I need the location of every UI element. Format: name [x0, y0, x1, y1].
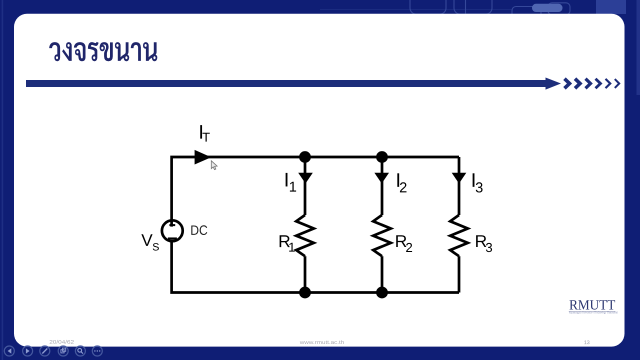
footer date [50, 340, 74, 344]
button: copy [58, 346, 68, 356]
label I3 [473, 173, 475, 187]
label I1 [286, 173, 288, 187]
right edge light strip [637, 0, 640, 95]
chevrons [565, 79, 620, 89]
left edge light line [1, 0, 3, 360]
button: previous [4, 346, 14, 356]
junction node bottom of R1 [299, 287, 311, 299]
wire: R1 branch bottom [304, 256, 307, 292]
wire: R2 branch top [381, 157, 384, 215]
junction node bottom of R2 [376, 287, 388, 299]
mouse cursor [211, 161, 217, 170]
junction node top of R2 [376, 151, 388, 163]
wire: bottom bus [172, 241, 459, 292]
label VS [141, 234, 152, 246]
top band deco filled chip [532, 4, 563, 12]
footer url [300, 340, 344, 344]
button: more [92, 346, 102, 356]
top-right lighter block [596, 0, 626, 14]
slide title (Thai): วงจรขนาน [49, 42, 157, 61]
current I3 arrow [452, 173, 467, 184]
footer page number [584, 341, 589, 345]
label R3 [476, 235, 486, 247]
label IT [200, 125, 202, 139]
wire: R1 branch top [304, 157, 307, 215]
VS polarity marks [168, 225, 177, 239]
resistor R2 zigzag [373, 215, 391, 256]
wire: top bus [172, 157, 459, 227]
label R2 [396, 235, 406, 247]
button: pen [40, 346, 50, 356]
label R1 [280, 235, 290, 247]
RMUTT logo rule [569, 311, 616, 313]
label DC [191, 225, 207, 235]
wire: R2 branch bottom [381, 256, 384, 292]
resistor R3 zigzag [450, 215, 468, 256]
junction node top of R1 [299, 151, 311, 163]
top band circuit-deco outlines [320, 0, 570, 19]
wire: R3 branch top [458, 157, 461, 215]
button: next [23, 346, 33, 356]
voltage source VS circle [162, 220, 183, 241]
current I2 arrow [374, 173, 389, 184]
resistor R1 zigzag [296, 215, 314, 256]
wire: R3 branch bottom [458, 256, 461, 292]
current IT arrow on top bus [195, 150, 212, 165]
title underline bar with arrow [26, 78, 561, 90]
current I1 arrow [298, 173, 313, 184]
RMUTT tagline [569, 311, 618, 314]
RMUTT logo text [569, 300, 615, 309]
label I2 [397, 173, 399, 187]
button: zoom [75, 346, 85, 356]
